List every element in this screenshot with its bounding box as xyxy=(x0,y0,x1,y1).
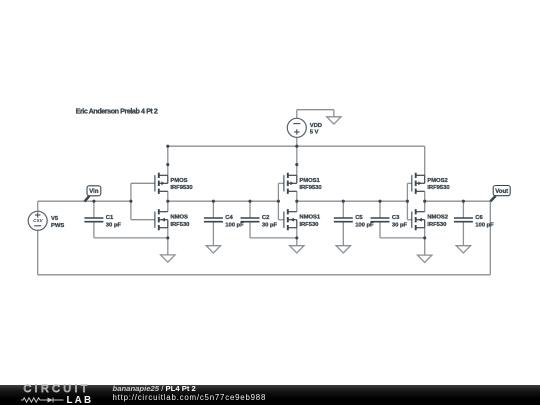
wire V5 bottom lead xyxy=(37,230,39,274)
node stage3 output junction xyxy=(423,200,426,203)
capacitor C6 100pF xyxy=(454,218,473,222)
svg-text:5 V: 5 V xyxy=(310,129,319,135)
capacitor C2 30pF xyxy=(241,218,260,222)
wire V5 top lead xyxy=(37,201,39,211)
ground (VDD source) xyxy=(327,117,341,124)
ground (NMOS1 source) xyxy=(290,246,304,253)
wire PMOS source lead xyxy=(167,146,169,175)
wire Vin net (V5 to gate tie 1) xyxy=(38,200,131,202)
wire C1 top lead xyxy=(93,201,95,218)
node PMOS source at VDD rail xyxy=(166,145,169,148)
transistor PMOS1 (IRF9530) xyxy=(284,173,297,194)
svg-text:C6: C6 xyxy=(475,215,483,221)
node stage2 output junction xyxy=(295,200,298,203)
svg-text:IRF9530: IRF9530 xyxy=(427,185,450,191)
wire C3 bottom to NMOS2 source xyxy=(380,237,425,239)
ground (C6) xyxy=(456,246,470,253)
node C6 top xyxy=(462,200,465,203)
svg-text:30 pF: 30 pF xyxy=(262,222,278,228)
ground (C4) xyxy=(206,246,220,253)
wire cap bottom lead xyxy=(379,222,381,238)
svg-text:Eric Anderson Prelab 4 Pt 2: Eric Anderson Prelab 4 Pt 2 xyxy=(76,107,158,116)
transistor PMOS2 (IRF9530) xyxy=(412,173,425,194)
node C4 top xyxy=(212,200,215,203)
node flag Vin xyxy=(85,186,101,202)
svg-text:IRF9530: IRF9530 xyxy=(170,185,193,191)
svg-text:C3: C3 xyxy=(392,215,400,221)
node C3 top xyxy=(378,200,381,203)
node NMOS1 source junction xyxy=(295,236,298,239)
svg-text:CSV: CSV xyxy=(33,218,43,223)
wire C6 top lead xyxy=(462,201,464,218)
svg-text:PWS: PWS xyxy=(51,223,64,229)
wire C2 top lead xyxy=(249,201,251,218)
wire VDD rail xyxy=(168,145,425,147)
svg-text:IRF9530: IRF9530 xyxy=(299,185,322,191)
node VDD source at rail xyxy=(295,145,298,148)
node C2 top xyxy=(248,200,251,203)
wire gate tie vertical xyxy=(277,183,279,219)
voltage source V5 (CSV/PWS) xyxy=(28,211,47,230)
capacitor C4 100pF xyxy=(204,218,223,222)
svg-text:V5: V5 xyxy=(51,216,59,222)
svg-text:100 pF: 100 pF xyxy=(475,222,494,228)
wire NMOS gate lead xyxy=(407,219,411,221)
transistor NMOS (IRF530) xyxy=(155,209,168,230)
wire stage2 output rail xyxy=(297,200,408,202)
wire NMOS drain lead xyxy=(167,201,169,212)
ground (NMOS2 source) xyxy=(418,255,432,262)
ground (C5) xyxy=(336,246,350,253)
wire cap bottom lead xyxy=(93,222,95,238)
wire NMOS1 source lead / ground stub xyxy=(296,228,298,246)
wire C2 bottom to NMOS1 source xyxy=(250,237,297,239)
wire C1 bottom to NMOS source xyxy=(94,237,168,239)
svg-text:C4: C4 xyxy=(225,215,233,221)
wire VDD to ground xyxy=(297,109,334,111)
voltage source VDD xyxy=(287,118,306,137)
svg-text:IRF530: IRF530 xyxy=(299,222,319,228)
node gate tie 3 junction xyxy=(406,200,409,203)
node C5 top xyxy=(342,200,345,203)
wire PMOS source lead xyxy=(424,146,426,175)
svg-text:30 pF: 30 pF xyxy=(106,222,122,228)
wire cap ground lead xyxy=(342,222,344,246)
footer bar xyxy=(0,385,540,405)
svg-text:PMOS: PMOS xyxy=(170,178,187,184)
wire PMOS source lead xyxy=(296,146,298,175)
svg-text:30 pF: 30 pF xyxy=(392,222,408,228)
wire cap ground lead xyxy=(212,222,214,246)
svg-text:Vout: Vout xyxy=(495,189,508,195)
node NMOS2 source junction xyxy=(423,236,426,239)
node Vin junction (C1 top) xyxy=(92,200,95,203)
svg-text:IRF530: IRF530 xyxy=(427,222,447,228)
wire gate tie vertical xyxy=(406,183,408,219)
wire cap ground lead xyxy=(462,222,464,246)
node PMOS body junction xyxy=(166,163,169,166)
svg-text:NMOS: NMOS xyxy=(170,215,188,221)
wire PMOS drain lead xyxy=(167,191,169,201)
wire Vout drop xyxy=(489,201,491,275)
transistor PMOS (IRF9530) xyxy=(155,173,168,194)
wire stage1 output rail xyxy=(168,200,279,202)
node gate tie 1 junction xyxy=(129,200,132,203)
svg-text:PMOS1: PMOS1 xyxy=(299,178,320,184)
svg-text:100 pF: 100 pF xyxy=(355,222,374,228)
capacitor C5 100pF xyxy=(334,218,353,222)
capacitor C1 30pF xyxy=(84,218,103,222)
wire bottom return xyxy=(38,274,491,276)
node NMOS source junction xyxy=(166,236,169,239)
node stage1 output junction xyxy=(166,200,169,203)
svg-text:100 pF: 100 pF xyxy=(225,222,244,228)
wire PMOS gate lead xyxy=(131,182,155,184)
CircuitLab logo xyxy=(24,383,91,395)
wire NMOS drain lead xyxy=(296,201,298,212)
ground (NMOS source) xyxy=(161,255,175,262)
wire gate tie vertical xyxy=(130,183,132,219)
svg-text:C5: C5 xyxy=(355,215,363,221)
wire VDD ground stub xyxy=(333,110,335,117)
svg-text:C2: C2 xyxy=(262,215,270,221)
wire C5 top lead xyxy=(342,201,344,218)
svg-text:Vin: Vin xyxy=(89,189,99,195)
transistor NMOS2 (IRF530) xyxy=(412,209,425,230)
wire NMOS drain lead xyxy=(424,201,426,212)
wire NMOS2 source lead / ground stub xyxy=(424,228,426,255)
wire PMOS gate lead xyxy=(407,182,411,184)
wire stage3 output rail xyxy=(425,200,491,202)
svg-text:C1: C1 xyxy=(106,215,114,221)
svg-text:PMOS2: PMOS2 xyxy=(427,178,448,184)
wire cap bottom lead xyxy=(249,222,251,238)
wire C4 top lead xyxy=(212,201,214,218)
wire PMOS drain lead xyxy=(296,191,298,201)
svg-text:NMOS2: NMOS2 xyxy=(427,215,448,221)
wire NMOS gate lead xyxy=(131,219,155,221)
capacitor C3 30pF xyxy=(371,218,390,222)
transistor NMOS1 (IRF530) xyxy=(284,209,297,230)
wire NMOS gate lead xyxy=(278,219,284,221)
svg-text:VDD: VDD xyxy=(310,123,322,129)
wire VDD source bottom lead xyxy=(296,137,298,146)
wire PMOS drain lead xyxy=(424,191,426,201)
svg-text:IRF530: IRF530 xyxy=(170,222,190,228)
node flag Vout xyxy=(490,186,510,202)
wire C3 top lead xyxy=(379,201,381,218)
wire VDD source top lead xyxy=(296,110,298,119)
wire NMOS source lead / ground stub xyxy=(167,228,169,255)
node PMOS1 body junction xyxy=(295,163,298,166)
svg-text:NMOS1: NMOS1 xyxy=(299,215,320,221)
node gate tie 2 junction xyxy=(277,200,280,203)
wire PMOS gate lead xyxy=(278,182,284,184)
